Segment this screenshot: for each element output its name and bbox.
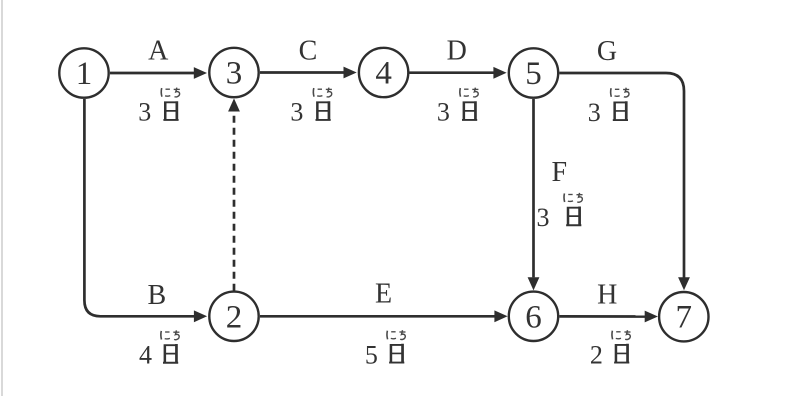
svg-text:2: 2 — [226, 299, 243, 335]
svg-text:4: 4 — [139, 341, 152, 370]
svg-text:3: 3 — [290, 98, 303, 127]
node 5 — [509, 48, 558, 97]
arrowhead A — [194, 67, 207, 79]
svg-text:F: F — [552, 157, 568, 188]
dummy wire 2->3 dashed — [233, 110, 236, 291]
wire E: 2->6 — [260, 315, 495, 318]
node 6 — [509, 292, 558, 341]
wire B: 1->2 with rounded corner — [84, 99, 194, 316]
svg-text:3: 3 — [226, 56, 243, 92]
svg-text:D: D — [447, 35, 467, 66]
svg-text:H: H — [597, 279, 617, 310]
arrowhead dummy — [228, 98, 240, 111]
node 2 — [209, 292, 258, 341]
node 4 — [359, 48, 408, 97]
svg-text:7: 7 — [676, 300, 693, 336]
arrowhead B — [194, 310, 207, 322]
svg-text:3: 3 — [437, 98, 450, 127]
wire C: 3->4 — [260, 71, 345, 74]
svg-text:G: G — [597, 36, 617, 67]
arrowhead D — [493, 67, 506, 79]
node 7 — [659, 292, 708, 341]
svg-text:1: 1 — [76, 56, 93, 92]
svg-text:B: B — [147, 280, 166, 311]
arrowhead H — [645, 311, 658, 323]
wire H: 6->7 — [559, 315, 645, 318]
svg-text:4: 4 — [375, 56, 392, 92]
svg-text:2: 2 — [590, 340, 603, 369]
svg-text:A: A — [148, 36, 169, 67]
svg-text:3: 3 — [138, 98, 151, 127]
svg-text:6: 6 — [525, 299, 542, 335]
svg-text:3: 3 — [537, 203, 550, 232]
svg-text:5: 5 — [365, 340, 378, 369]
arrowhead G — [678, 277, 690, 290]
node 3 — [209, 48, 258, 97]
svg-text:E: E — [375, 279, 392, 310]
svg-text:C: C — [299, 35, 318, 66]
node 1 — [59, 48, 108, 97]
wire F: 5->6 vertical — [532, 99, 535, 278]
arrowhead C — [344, 67, 357, 79]
arrowhead E — [494, 310, 507, 322]
wire G: 5->7 with rounded corner — [559, 73, 684, 278]
wire A: 1->3 — [110, 72, 195, 75]
svg-text:5: 5 — [525, 56, 542, 92]
page left border — [1, 0, 2, 396]
svg-text:3: 3 — [588, 98, 601, 127]
arrowhead F — [528, 277, 540, 290]
wire D: 4->5 — [410, 71, 495, 74]
